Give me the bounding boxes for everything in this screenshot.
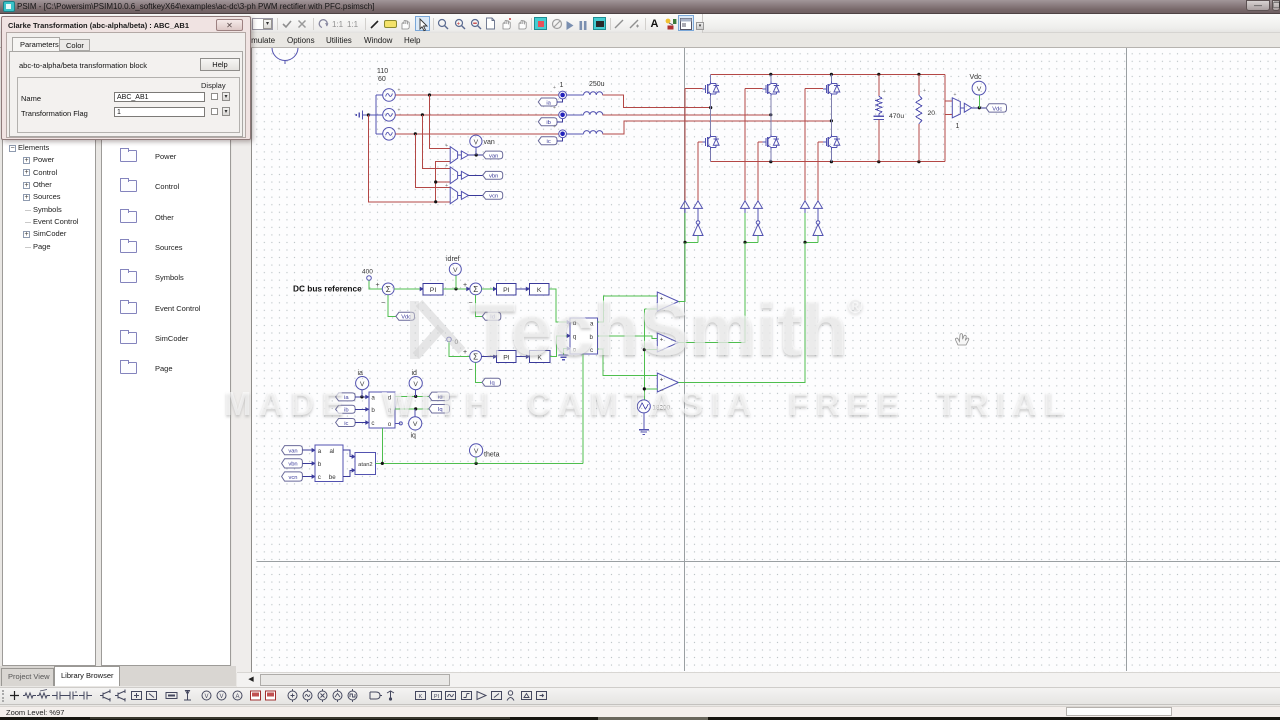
node 0 reference	[447, 337, 452, 342]
svg-text:+: +	[883, 89, 886, 95]
svg-text:ib: ib	[546, 120, 551, 126]
junction DC bus+	[917, 73, 920, 76]
svg-text:idref: idref	[446, 256, 460, 263]
probe iq	[414, 409, 416, 417]
ground GND1 (source neutral)	[362, 111, 364, 120]
svg-text:c: c	[318, 474, 321, 481]
svg-text:vcn: vcn	[288, 475, 297, 481]
svg-text:K: K	[419, 694, 423, 700]
page boundary vertical line 2	[1126, 48, 1128, 671]
watermark	[405, 295, 471, 361]
svg-text:be: be	[329, 474, 336, 481]
junction DC bus+	[769, 73, 772, 76]
capacitor C1 470u	[878, 74, 880, 96]
node 400 reference	[367, 276, 372, 281]
svg-text:+: +	[457, 22, 461, 28]
left tree panel	[2, 49, 96, 666]
summer SUM1	[382, 283, 394, 295]
wire GD1 green drop	[684, 213, 686, 242]
wire K1 to d input	[549, 289, 567, 322]
svg-text:ia: ia	[358, 370, 364, 377]
tag ia input	[336, 393, 356, 401]
svg-text:K: K	[537, 355, 542, 362]
svg-text:Vdc: Vdc	[992, 106, 1002, 112]
svg-text:20: 20	[928, 110, 936, 117]
svg-text:+: +	[660, 338, 664, 344]
wire gate Q2	[745, 88, 763, 90]
svg-text:V: V	[219, 694, 223, 700]
svg-text:1: 1	[956, 123, 960, 130]
wire bridge leg 3	[830, 74, 832, 81]
wire phase C to bridge	[603, 121, 832, 134]
current sensor ISC	[559, 130, 567, 138]
svg-text:V: V	[474, 139, 479, 146]
wire d out	[395, 395, 429, 397]
wire phase A tap to summer1	[430, 95, 451, 148]
wire PI2 to K1	[516, 288, 529, 290]
bottom tabs	[0, 666, 236, 686]
inverter NOT GD5	[756, 221, 760, 225]
IGBT Q3 (top)	[823, 88, 826, 90]
junction DC bus+	[877, 73, 880, 76]
svg-text:+: +	[398, 88, 401, 94]
junction id probe	[414, 395, 417, 398]
svg-text:Σ: Σ	[386, 285, 391, 294]
svg-text:DC bus reference: DC bus reference	[293, 284, 362, 294]
svg-text:V: V	[413, 421, 418, 428]
subtractor SUB3	[450, 187, 457, 204]
PI block PI3	[497, 350, 517, 362]
svg-text:V: V	[453, 267, 458, 274]
probe theta	[475, 457, 477, 463]
svg-text:1:1: 1:1	[332, 20, 344, 29]
svg-text:V: V	[474, 448, 479, 455]
svg-text:al: al	[330, 448, 335, 455]
junction DC bus-	[769, 160, 772, 163]
svg-text:V: V	[204, 694, 208, 700]
svg-text:V: V	[413, 381, 418, 388]
svg-text:A: A	[651, 18, 659, 29]
wire sum3 to PI3	[482, 356, 497, 358]
svg-text:−: −	[660, 388, 664, 394]
tag vcn input	[282, 472, 303, 481]
IGBT Q4 (bottom)	[702, 141, 705, 143]
wire theta input riser	[381, 428, 383, 464]
svg-text:ic: ic	[344, 421, 348, 427]
svg-text:+: +	[954, 92, 957, 98]
wire driver link 3	[805, 241, 818, 243]
PI block PI1	[423, 283, 443, 295]
svg-text:V: V	[977, 86, 982, 93]
probe idref	[455, 275, 457, 289]
junction DC bus+	[830, 73, 833, 76]
wire al to atan2	[343, 450, 352, 456]
partial circle (clipped probe) near top	[272, 35, 298, 61]
wire gate Q6	[818, 141, 823, 143]
transformation block DQO_ABC1	[570, 318, 597, 354]
wire output a to comparator1	[598, 296, 658, 322]
wire driver link 2	[745, 241, 758, 243]
wire PI1 to sum2	[443, 288, 470, 290]
wire q out	[395, 408, 429, 410]
wire theta to block bottom	[582, 354, 584, 464]
svg-text:ib: ib	[344, 408, 349, 414]
gain block K1	[529, 283, 549, 295]
svg-text:+: +	[376, 282, 380, 289]
svg-text:18200: 18200	[653, 405, 671, 412]
comparator CMP3	[657, 373, 678, 392]
wire phase A horizontal	[395, 94, 559, 96]
svg-text:+: +	[923, 88, 926, 94]
tag ib (sensor output)	[538, 118, 557, 126]
comparator CMP1	[657, 292, 678, 311]
tag ib input	[336, 405, 356, 413]
svg-text:−: −	[469, 367, 473, 374]
wire phase A to bridge	[603, 95, 711, 108]
wire DC bus negative	[711, 161, 945, 163]
IGBT Q5 (bottom)	[763, 141, 766, 143]
svg-text:PI: PI	[503, 355, 510, 362]
svg-text:+: +	[445, 143, 448, 149]
svg-text:+: +	[660, 378, 664, 384]
AC voltage source VSC	[383, 128, 396, 141]
tag ic input	[336, 419, 356, 427]
wire neutral riser to summers	[436, 162, 451, 202]
svg-text:0: 0	[455, 339, 459, 346]
wire phase B tap to summer2	[422, 115, 450, 169]
inverter NOT GD6	[816, 221, 820, 225]
gain block K2	[529, 350, 550, 362]
summer SUM3	[470, 351, 482, 363]
svg-text:60: 60	[378, 76, 386, 83]
svg-text:q: q	[388, 407, 392, 414]
tag Id feedback row1	[476, 295, 483, 317]
wire gate Q1	[685, 88, 702, 90]
svg-text:+: +	[463, 349, 467, 356]
junction theta probe	[475, 462, 478, 465]
svg-text:−: −	[381, 300, 385, 307]
status bar	[0, 706, 1280, 717]
wire theta net	[376, 462, 583, 464]
svg-text:−: −	[660, 348, 664, 354]
wire carrier distribution	[644, 308, 657, 310]
wire 400 to sum1	[369, 280, 382, 289]
inductor Lc 250u	[567, 133, 584, 135]
svg-text:110: 110	[377, 68, 388, 75]
svg-text:250u: 250u	[589, 81, 605, 88]
junction bridge leg2 mid	[769, 113, 772, 116]
triangle carrier source VTRI 18200	[637, 400, 650, 413]
wire DC bus right vertical	[944, 74, 946, 161]
tag vbn out	[483, 171, 503, 179]
wire bridge leg 1	[710, 74, 712, 81]
svg-text:470u: 470u	[889, 113, 904, 120]
IGBT Q6 (bottom)	[823, 141, 826, 143]
svg-text:c: c	[371, 420, 374, 427]
svg-text:+: +	[445, 183, 448, 189]
parameter dialog	[1, 16, 251, 140]
svg-text:a: a	[371, 395, 375, 402]
tag ia (sensor output)	[538, 98, 557, 106]
wire comparator1 out	[679, 242, 686, 301]
wire sum1 to PI1	[394, 288, 423, 290]
svg-text:van: van	[288, 449, 297, 455]
svg-text:Id: Id	[490, 315, 495, 321]
svg-text:q: q	[573, 334, 577, 341]
page boundary vertical line 1	[684, 48, 686, 671]
AC voltage source VSB	[383, 109, 396, 122]
probe id	[415, 390, 417, 397]
svg-text:atan2: atan2	[358, 462, 373, 468]
svg-text:PI: PI	[434, 694, 440, 700]
svg-text:Iq: Iq	[490, 381, 495, 387]
on-off controller GD2 (top)	[741, 201, 750, 209]
window title bar	[0, 0, 1280, 14]
tag Iq out	[429, 405, 450, 414]
ground GND3 (carrier)	[643, 413, 645, 430]
transformation block ABC_AB1	[315, 445, 343, 482]
junction ia probe	[360, 395, 363, 398]
on-off controller GD4 (bottom)	[694, 201, 703, 209]
junction phase C	[414, 132, 417, 135]
svg-text:Vdc: Vdc	[970, 74, 983, 81]
probe Vdc	[978, 95, 980, 108]
wire gate Q5	[758, 141, 763, 143]
probe ia	[361, 390, 363, 397]
current sensor ISA	[559, 91, 567, 99]
svg-text:+: +	[463, 282, 467, 289]
junction Vdc out	[978, 106, 981, 109]
ground GND2 (o input)	[564, 349, 568, 355]
wire 0 to sum3	[449, 342, 470, 357]
buffer after SUB2	[458, 174, 462, 176]
wire PI3 to K2	[516, 356, 529, 358]
summer SUM2	[470, 283, 482, 295]
svg-text:K: K	[537, 287, 542, 294]
wire bridge leg 2	[770, 74, 772, 81]
junction bridge leg1 mid	[709, 106, 712, 109]
terminal o unconnected	[395, 422, 399, 424]
svg-text:PI: PI	[430, 287, 437, 294]
junction phase B	[421, 113, 424, 116]
tag vcn out	[483, 192, 503, 200]
svg-text:PI: PI	[503, 287, 510, 294]
svg-text:Id: Id	[438, 395, 443, 401]
svg-text:a: a	[318, 448, 322, 455]
svg-text:V: V	[360, 381, 365, 388]
svg-text:van: van	[489, 153, 498, 159]
subtractor SUB1	[450, 147, 457, 164]
svg-text:+: +	[398, 107, 401, 113]
PI block PI2	[497, 283, 517, 295]
svg-text:A: A	[235, 694, 239, 700]
subtractor SUB2	[450, 167, 457, 184]
junction DC bus-	[877, 160, 880, 163]
junction DC bus-	[917, 160, 920, 163]
on-off controller GD6 (bottom)	[814, 201, 823, 209]
junction bridge leg3 mid	[830, 119, 833, 122]
svg-text:+: +	[398, 126, 401, 132]
svg-text:1: 1	[560, 82, 564, 89]
buffer after SUB3	[458, 194, 462, 196]
menu bar	[0, 33, 1280, 48]
svg-text:iq: iq	[411, 433, 417, 440]
horizontal scrollbar	[237, 672, 1280, 687]
on-off controller GD1 (top)	[681, 201, 690, 209]
block ATAN2	[355, 453, 376, 475]
tag ic (sensor output)	[538, 137, 557, 145]
library browser panel	[101, 49, 231, 666]
svg-text:ia: ia	[546, 100, 551, 106]
wire sum2 to PI2	[482, 288, 497, 290]
wire GD3 green drop	[804, 213, 806, 242]
svg-text:b: b	[371, 407, 375, 414]
svg-text:b: b	[318, 461, 322, 468]
svg-text:+: +	[553, 124, 556, 130]
wire output c to comparator3	[598, 349, 658, 376]
mouse hand cursor	[955, 334, 968, 345]
resistor R1 20	[918, 74, 920, 95]
tag Vdc feedback	[388, 295, 396, 317]
junction theta riser	[381, 462, 384, 465]
svg-text:Σ: Σ	[473, 285, 478, 294]
svg-text:+: +	[660, 297, 664, 303]
svg-text:b: b	[590, 334, 594, 341]
svg-text:a: a	[590, 321, 594, 328]
wire phase B to bridge	[603, 114, 771, 116]
probe van (voltage probe)	[475, 153, 478, 156]
svg-text:theta: theta	[484, 452, 500, 459]
IGBT Q1 (top)	[702, 88, 705, 90]
wire comparator2 out	[679, 242, 746, 342]
toolbar	[0, 14, 1280, 33]
wire source left bus	[368, 114, 376, 116]
svg-text:+: +	[553, 85, 556, 91]
bottom toolbar	[0, 687, 1280, 705]
svg-text:o: o	[573, 347, 577, 354]
junction phase A	[428, 93, 431, 96]
voltage sensor VDCSEN	[945, 100, 952, 102]
gain block 1 (buffer)	[960, 107, 964, 109]
wire gate Q4	[698, 141, 702, 143]
wire gate Q3	[805, 88, 823, 90]
svg-text:vbn: vbn	[288, 462, 297, 468]
svg-text:400: 400	[362, 269, 373, 276]
wire phase C horizontal	[395, 133, 559, 135]
IGBT Q2 (top)	[763, 88, 766, 90]
tag vbn input	[282, 459, 303, 468]
svg-text:Vdc: Vdc	[401, 315, 411, 321]
wire driver link 1	[685, 241, 698, 243]
junction idref	[454, 287, 457, 290]
svg-text:c: c	[590, 347, 593, 354]
svg-text:o: o	[388, 421, 392, 428]
svg-text:−: −	[660, 307, 664, 313]
on-off controller GD3 (top)	[801, 201, 810, 209]
transformation block ABC_DQ1	[369, 392, 395, 428]
tag Iq feedback row2	[476, 362, 482, 382]
wire be to atan2	[343, 470, 352, 476]
schematic area	[251, 48, 1280, 673]
wire comparator3 out	[679, 242, 806, 382]
buffer after SUB1	[458, 154, 462, 156]
svg-text:+: +	[553, 105, 556, 111]
wire DC bus positive	[711, 73, 945, 75]
current sensor ISB	[559, 111, 567, 119]
svg-text:ia: ia	[344, 395, 349, 401]
page boundary horizontal line	[257, 561, 1280, 563]
svg-text:d: d	[388, 395, 392, 402]
svg-text:id: id	[412, 370, 418, 377]
svg-text:−: −	[469, 300, 473, 307]
wire phase C tap to summer3	[415, 134, 450, 188]
wire K2 to q input	[550, 336, 567, 357]
svg-text:d: d	[573, 320, 577, 327]
svg-text:vbn: vbn	[489, 174, 498, 180]
svg-text:Σ: Σ	[473, 353, 478, 362]
svg-text:ic: ic	[547, 139, 551, 145]
inverter NOT GD4	[696, 221, 700, 225]
svg-text:van: van	[484, 139, 495, 146]
svg-text:1:1: 1:1	[347, 20, 359, 29]
junction iq probe	[414, 407, 417, 410]
inductor La 250u	[567, 94, 584, 96]
svg-text:+: +	[445, 163, 448, 169]
inductor Lb 250u	[567, 114, 584, 116]
AC voltage source VSA	[383, 89, 396, 102]
junction neutral riser 2	[434, 200, 437, 203]
tag van out	[483, 151, 503, 159]
junction DC bus-	[830, 160, 833, 163]
wire phase B horizontal	[395, 114, 559, 116]
wire neutral down	[368, 115, 435, 202]
wire GD2 green drop	[744, 213, 746, 242]
comparator CMP2	[657, 333, 678, 352]
tag van input	[282, 446, 303, 455]
on-off controller GD5 (bottom)	[754, 201, 763, 209]
node N junction	[367, 113, 370, 116]
tag Vdc out	[986, 104, 1007, 112]
tag Id out	[429, 392, 450, 401]
wire output b to comparator2	[598, 336, 658, 339]
svg-text:vcn: vcn	[489, 194, 498, 200]
junction neutral riser 1	[434, 180, 437, 183]
svg-text:Iq: Iq	[438, 407, 443, 413]
